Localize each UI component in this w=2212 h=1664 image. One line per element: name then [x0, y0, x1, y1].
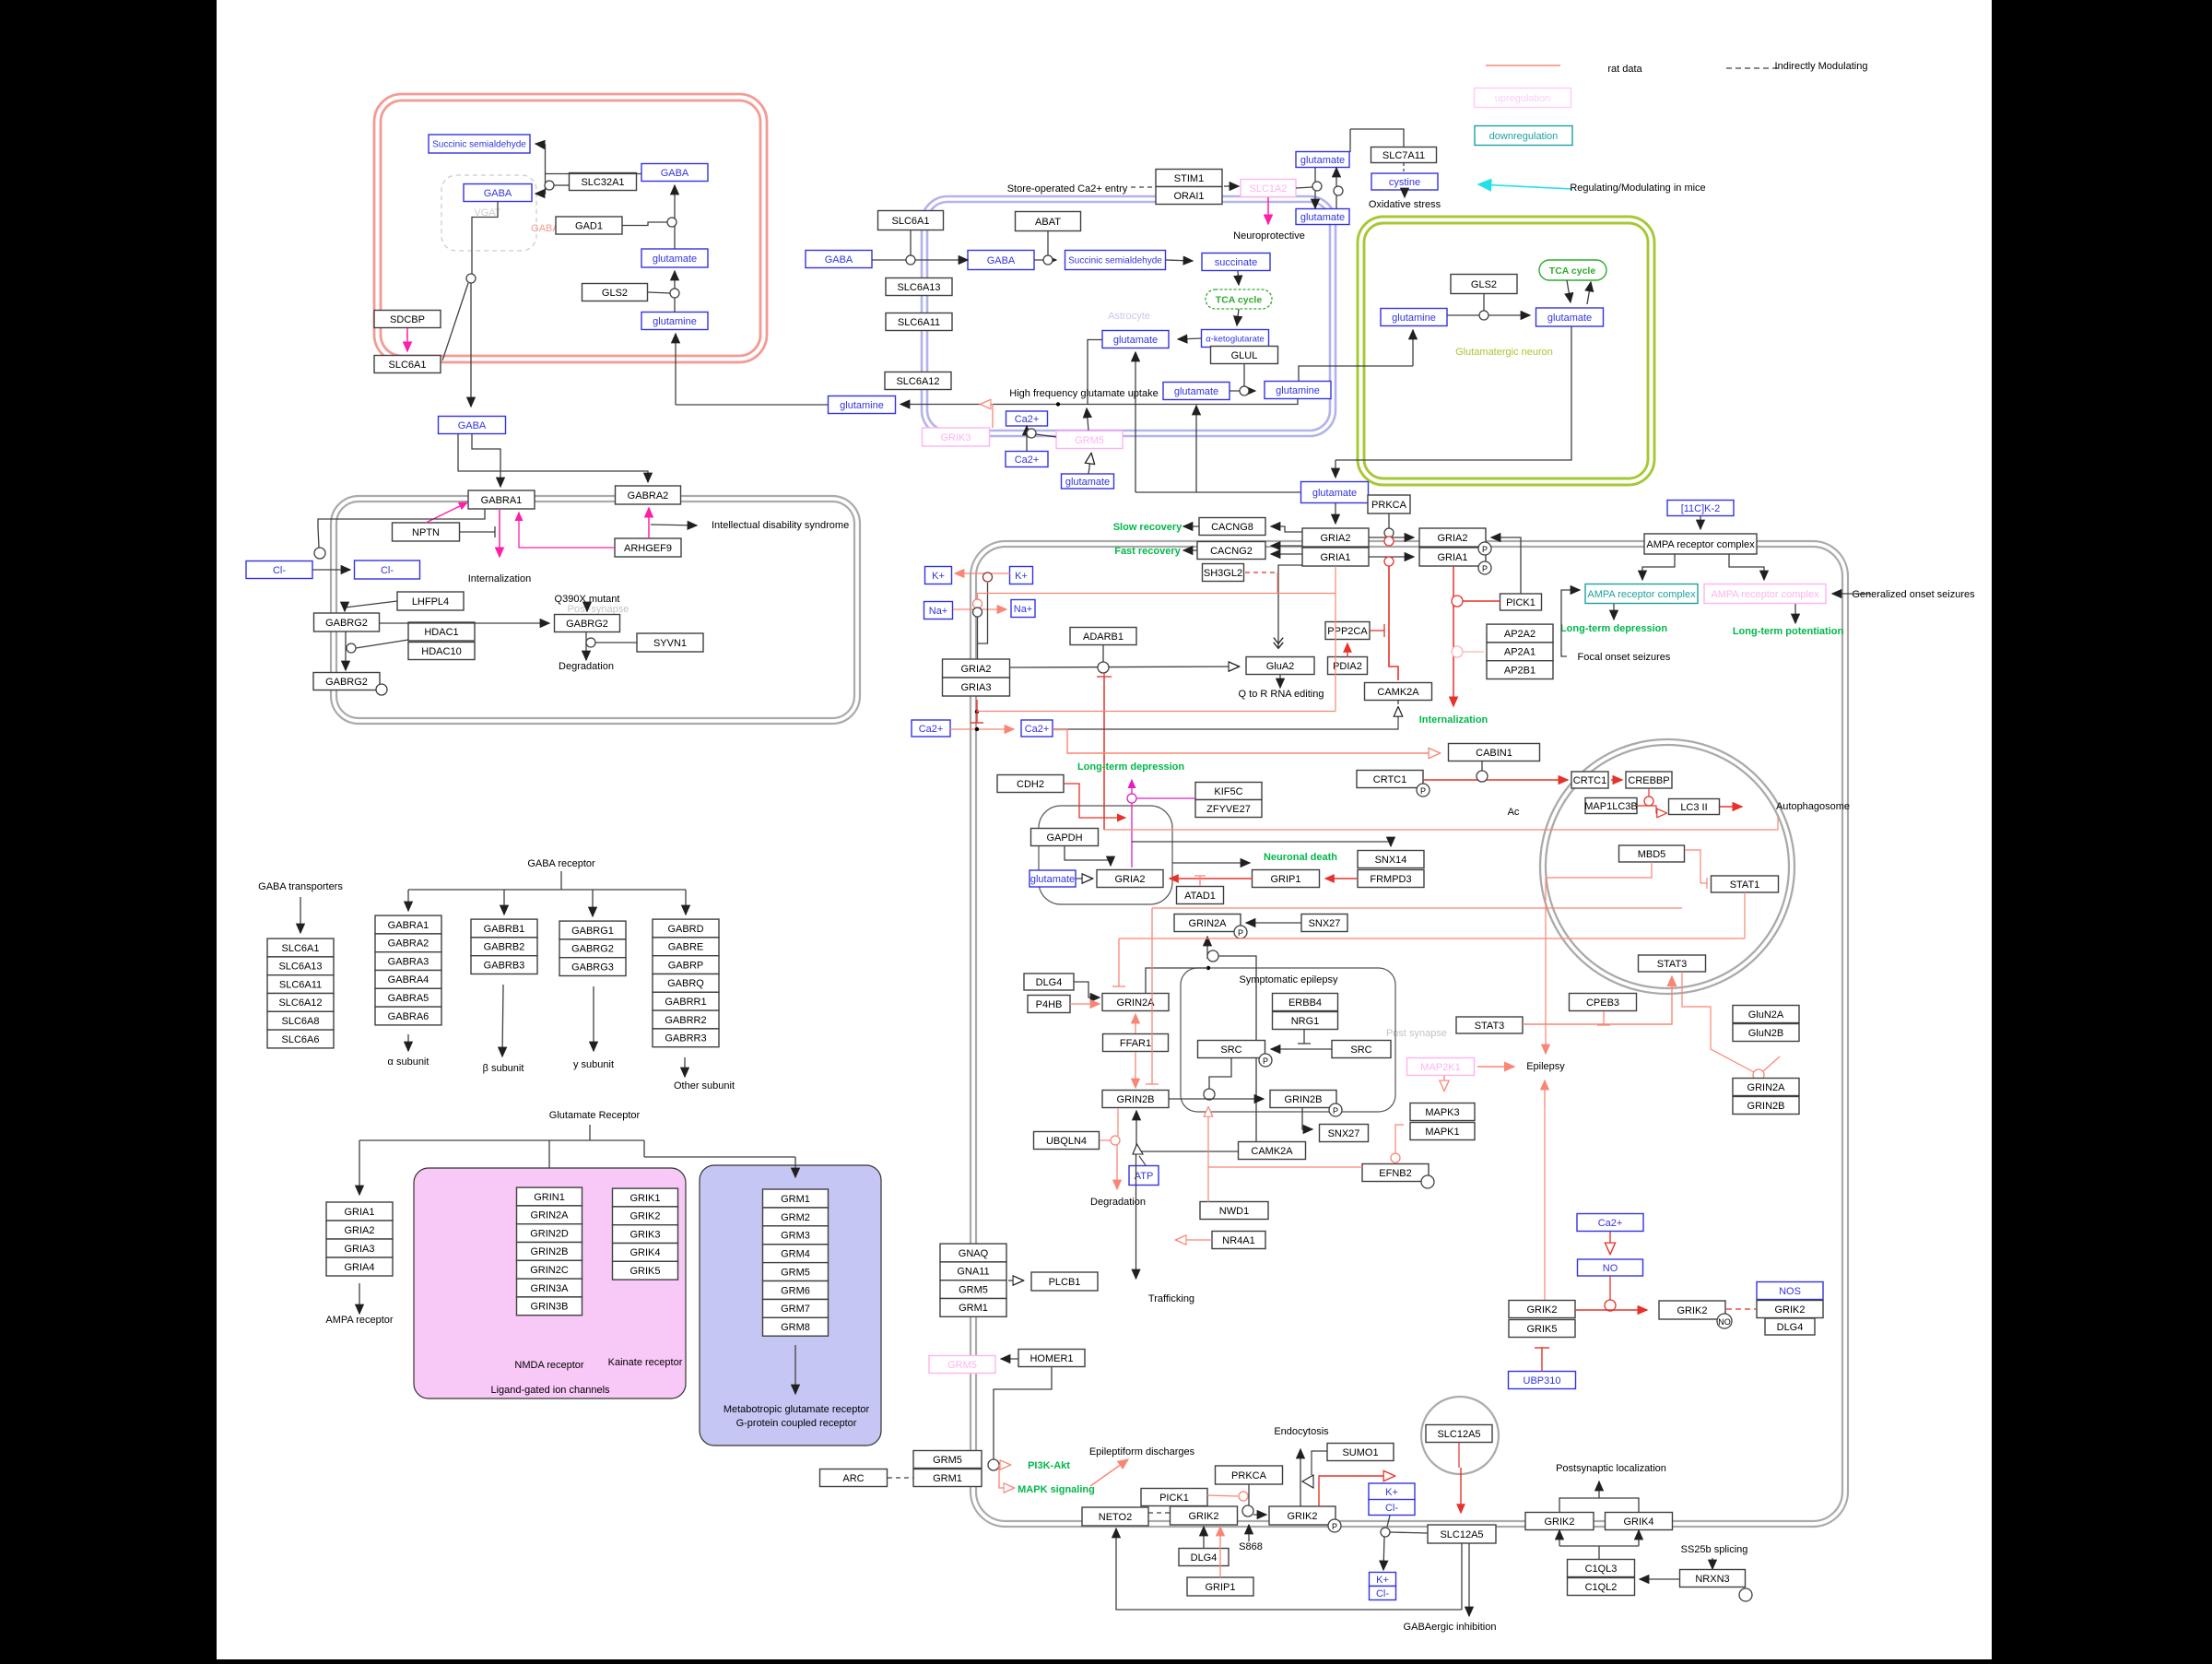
svg-text:G-protein coupled receptor: G-protein coupled receptor: [736, 1418, 857, 1429]
svg-text:Kainate receptor: Kainate receptor: [608, 1357, 683, 1368]
node SUMO1: [1327, 1444, 1394, 1461]
wire NPTN circle link: [318, 527, 319, 548]
svg-text:CRTC1: CRTC1: [1373, 774, 1406, 785]
wire Cl- transport: [312, 569, 350, 571]
wire red long top: [1104, 829, 1778, 831]
node HOMER1: [1018, 1350, 1085, 1367]
wire ARHGEF9 to GABRA2 (magenta): [648, 508, 650, 538]
svg-text:GRIN2A: GRIN2A: [1117, 997, 1156, 1009]
wire GABA to GABRA1: [472, 434, 500, 487]
svg-text:Neuroprotective: Neuroprotective: [1233, 230, 1305, 242]
svg-text:GABA receptor: GABA receptor: [527, 858, 595, 869]
svg-text:Glutamatergic neuron: Glutamatergic neuron: [1455, 347, 1553, 358]
wire vesicle to SLC6A1: [442, 283, 468, 360]
inhibition STAT1 salmon: [1700, 878, 1707, 889]
svg-text:NRG1: NRG1: [1291, 1016, 1320, 1027]
node CPEB3: [1570, 994, 1637, 1011]
wire FFAR1 to GRIN2B salmon: [1135, 1052, 1136, 1088]
svg-text:LC3 II: LC3 II: [1680, 802, 1707, 813]
svg-text:AMPA receptor: AMPA receptor: [325, 1315, 393, 1326]
node GABRR1 (other list): [653, 992, 719, 1010]
svg-text:C1QL3: C1QL3: [1585, 1564, 1618, 1575]
metabolite GABA (neuron): [641, 164, 708, 182]
node CREBBP: [1626, 772, 1672, 788]
wire SRC to SRC: [1271, 1048, 1332, 1050]
svg-text:GRM1: GRM1: [933, 1473, 962, 1484]
svg-text:GRIN2A: GRIN2A: [1747, 1082, 1786, 1093]
node GABRB1 (beta list): [471, 919, 537, 938]
svg-text:SLC32A1: SLC32A1: [581, 177, 624, 188]
svg-text:α-ketoglutarate: α-ketoglutarate: [1206, 334, 1265, 344]
wire salmon epilepsy vert: [1545, 878, 1547, 1042]
svg-text:GRM6: GRM6: [781, 1285, 810, 1296]
svg-text:Cl-: Cl-: [273, 565, 286, 576]
node SLC12A5 (membrane): [1428, 1525, 1496, 1543]
node SLC6A11: [886, 313, 952, 331]
legend dashed line: [1726, 67, 1780, 69]
node NRG1: [1273, 1012, 1338, 1030]
node GRM1 (mGluR list): [763, 1189, 829, 1208]
wire GABA to GABRA2: [458, 434, 648, 482]
svg-text:Ca2+: Ca2+: [1025, 724, 1050, 735]
wire STAT3 route down: [1682, 972, 1754, 1072]
node circle Na channel: [973, 608, 982, 617]
svg-text:GRIN2B: GRIN2B: [1285, 1094, 1323, 1105]
svg-text:GRIA1: GRIA1: [344, 1207, 374, 1218]
metabolite glutamine (astrocyte): [1265, 382, 1331, 399]
svg-text:downregulation: downregulation: [1489, 131, 1559, 142]
svg-text:PDIA2: PDIA2: [1333, 661, 1362, 672]
inhibition CPEB3: [1597, 1011, 1610, 1025]
node circle SLC7A11 transport: [1334, 186, 1343, 195]
svg-text:ORAI1: ORAI1: [1173, 191, 1204, 202]
wire CAMK2A up open: [1397, 701, 1399, 704]
wire alpha arrow: [407, 1034, 409, 1051]
node GRM5 (Gq stack): [940, 1280, 1006, 1299]
metabolite K+ (upper pair): [1369, 1483, 1415, 1500]
svg-text:NR4A1: NR4A1: [1222, 1235, 1254, 1246]
svg-text:MAPK signaling: MAPK signaling: [1018, 1484, 1095, 1495]
wire glutamate to GRIA stack: [1335, 503, 1336, 524]
compartment vesicle SLC12A5 (gray circle): [1421, 1397, 1499, 1474]
node GRIN1 (NMDA list): [517, 1187, 582, 1206]
svg-text:MAPK3: MAPK3: [1425, 1107, 1459, 1118]
wire GABRA1 bottom left: [318, 509, 485, 527]
wire GABRA1 internalization (magenta): [499, 509, 500, 557]
node GABRA2 (alpha list): [375, 934, 441, 952]
node circle KCC2: [1381, 1528, 1390, 1537]
node GNAQ (Gq stack): [940, 1244, 1006, 1262]
wire ADARB1 to circle: [1102, 645, 1104, 662]
svg-text:Trafficking: Trafficking: [1148, 1293, 1194, 1304]
metabolite glutamate (astrocyte mid): [1102, 331, 1169, 348]
node GluN2A: [1733, 1006, 1799, 1023]
wire magenta LTD arrow: [1131, 780, 1133, 802]
svg-text:HOMER1: HOMER1: [1030, 1353, 1073, 1364]
node GRM5 (mGluR list): [763, 1263, 829, 1281]
metabolite K+ (lower pair): [1370, 1573, 1396, 1587]
wire KIF5C to circle magenta: [1136, 797, 1195, 799]
svg-text:GABA: GABA: [987, 255, 1016, 266]
svg-text:glutamate: glutamate: [1113, 335, 1158, 346]
svg-text:P: P: [1482, 564, 1488, 573]
node circle GRM5 Ca: [1027, 429, 1036, 438]
wire LC3II to autophagosome red: [1720, 806, 1742, 808]
wire KCl down: [1387, 1516, 1390, 1527]
wire GABA release down: [470, 283, 472, 407]
compartment nucleus (gray circle): [1540, 739, 1794, 994]
node GRIN2A (NMDA list): [517, 1206, 582, 1224]
svg-text:GABRG1: GABRG1: [571, 926, 614, 937]
node GLUL: [1211, 347, 1278, 364]
svg-text:Postsynaptic localization: Postsynaptic localization: [1556, 1463, 1666, 1474]
svg-text:PI3K-Akt: PI3K-Akt: [1028, 1460, 1070, 1471]
wire pink to LTP: [1794, 604, 1796, 623]
svg-text:[11C]K-2: [11C]K-2: [1681, 503, 1721, 514]
node SLC32A1: [570, 173, 637, 191]
legend rat data line: [1486, 65, 1560, 66]
node PICK1 (bottom): [1141, 1489, 1207, 1506]
svg-text:GRIK2: GRIK2: [629, 1211, 660, 1222]
wire SLC1A2 neuroprotective (magenta): [1267, 197, 1269, 224]
wire to PI3K open salmon: [999, 1464, 1010, 1466]
node GABRR3 (other list): [653, 1029, 719, 1047]
wire GRM5 to circle: [1036, 434, 1056, 437]
svg-text:GRIK2: GRIK2: [1544, 1516, 1574, 1528]
svg-text:GRM5: GRM5: [1075, 435, 1104, 446]
node SLC6A13: [886, 278, 952, 296]
node AP2A2: [1487, 624, 1553, 643]
metabolite ATP: [1129, 1166, 1159, 1186]
metabolite Ca2+ (astro upper): [1006, 411, 1048, 426]
metabolite Cl- (upper pair): [1369, 1500, 1415, 1516]
node circle GRIN2A: [1207, 950, 1218, 962]
node P SRC: [1259, 1054, 1272, 1067]
wire ARC dashed GRM1: [888, 1477, 913, 1479]
node GRIA2 (membrane stack): [1302, 528, 1369, 547]
svg-text:P4HB: P4HB: [1036, 999, 1063, 1010]
svg-text:GRM2: GRM2: [781, 1212, 810, 1223]
svg-text:succinate: succinate: [1215, 257, 1257, 268]
svg-text:CAMK2A: CAMK2A: [1377, 687, 1419, 698]
svg-text:GLS2: GLS2: [1471, 279, 1497, 290]
node circle CREBBP red: [1644, 797, 1653, 806]
wire red long LTD line: [977, 711, 1335, 713]
wire AMPA to teal: [1642, 554, 1675, 580]
wire SLC6A1 to circle astro: [910, 230, 912, 255]
node AMPA receptor complex (up): [1704, 584, 1826, 604]
wire tree to GABRB stack: [503, 890, 505, 915]
wire NRXN3 to C1QL: [1640, 1578, 1679, 1580]
wire K2 to AMPA: [1700, 516, 1701, 529]
metabolite GABA (extracellular left): [806, 251, 872, 268]
wire GABA transporters arrow: [300, 897, 301, 933]
node GRM8 (mGluR list): [763, 1317, 829, 1336]
node GABRG2 (gamma list): [559, 939, 626, 958]
node GNA11 (Gq stack): [940, 1262, 1006, 1280]
svg-text:SLC6A1: SLC6A1: [389, 360, 427, 371]
node CRTC1 (nucleus): [1571, 772, 1608, 788]
metabolite Cl- (outside): [246, 561, 312, 579]
metabolite Na+ (out): [924, 602, 953, 620]
wire GRIK2 red out: [1319, 1476, 1394, 1506]
node GRM5 (astrocyte pink): [1056, 431, 1123, 449]
svg-text:Ca2+: Ca2+: [1015, 414, 1040, 425]
wire GABA to SuccSemi astro: [1034, 259, 1056, 261]
wire glutamate-SLC7A11 top: [1350, 129, 1404, 147]
svg-text:Q390X mutant: Q390X mutant: [555, 594, 620, 605]
node P CRTC1: [1417, 784, 1430, 797]
node GRM5 (bottom): [913, 1451, 982, 1469]
wire GRM8 down arrow: [794, 1345, 796, 1394]
compartment Post synapse right (gray): [971, 541, 1848, 1527]
metabolite Succinic semialdehyde: [429, 135, 530, 153]
wire GABRG2 Q390X degradation: [585, 632, 587, 660]
node GRIA4 (AMPA list): [326, 1257, 393, 1276]
wire ABAT to circle: [1047, 231, 1049, 255]
metabolite NO: [1578, 1259, 1643, 1276]
svg-text:Endocytosis: Endocytosis: [1274, 1426, 1329, 1437]
svg-text:K+: K+: [1385, 1487, 1398, 1498]
node GRM7 (mGluR list): [763, 1300, 829, 1318]
wire CRTC1 to CRTC1 red: [1423, 779, 1568, 781]
wire generalized dash: [1856, 593, 1871, 595]
node HDAC1: [408, 622, 475, 641]
wire glutamine neuron horizontal: [1299, 366, 1413, 382]
wire salmon GRIA1 internal vert: [1335, 566, 1336, 712]
svg-text:SUMO1: SUMO1: [1342, 1447, 1378, 1458]
compartment Post-synapse left (gray): [331, 496, 860, 724]
node P GRIK2: [1328, 1519, 1341, 1532]
node PICK1 (top): [1500, 594, 1542, 610]
junction Ca dot: [975, 727, 979, 731]
wire salmon epilepsy arrow: [1545, 1042, 1547, 1054]
node GABRA3 (alpha list): [375, 952, 441, 971]
metabolite glutamate (neuron): [641, 249, 708, 267]
metabolite K+ (in): [1010, 567, 1033, 584]
node P4HB: [1028, 996, 1070, 1013]
node HDAC10: [408, 643, 475, 660]
node EFNB2: [1362, 1164, 1429, 1182]
svg-text:GluA2: GluA2: [1266, 661, 1295, 672]
node GABRA1 (alpha list): [375, 915, 441, 934]
wire release into cleft glutamate: [1335, 460, 1336, 478]
node GRIA2 (channel stack): [943, 659, 1010, 678]
node circle GluN salmon: [1753, 1069, 1764, 1080]
wire GRIK bracket up: [1559, 1498, 1639, 1513]
node STAT3 (cyto): [1456, 1017, 1523, 1033]
svg-text:GRIN2C: GRIN2C: [530, 1265, 569, 1276]
wire GRIN2A up arrow: [1206, 937, 1208, 959]
wire glutamine to glutamate: [674, 271, 676, 313]
node SRC (right): [1332, 1041, 1391, 1058]
metabolite glutamate (astrocyte top): [1296, 209, 1349, 225]
svg-text:Ca2+: Ca2+: [1598, 1218, 1623, 1229]
wire TCA to aKG: [1237, 309, 1239, 325]
junction dot GRIN2A: [1206, 966, 1210, 970]
svg-text:Autophagosome: Autophagosome: [1776, 801, 1850, 812]
wire red GRIA internalization: [1389, 566, 1398, 680]
wire PICK1 up to GRIA2: [1491, 537, 1521, 594]
legend cyan arrow: [1478, 184, 1572, 189]
svg-text:SNX27: SNX27: [1328, 1128, 1360, 1139]
wire K channel down: [978, 583, 988, 643]
svg-text:GRM7: GRM7: [781, 1304, 810, 1315]
node NR4A1: [1212, 1232, 1265, 1249]
wire CDH2 red: [1064, 784, 1125, 818]
svg-text:STAT3: STAT3: [1475, 1021, 1505, 1032]
node CAMK2A (lower): [1239, 1142, 1306, 1160]
svg-text:AP2A2: AP2A2: [1504, 629, 1535, 640]
svg-text:GABA: GABA: [661, 168, 689, 179]
svg-text:K+: K+: [1015, 571, 1028, 582]
svg-text:Ac: Ac: [1508, 807, 1520, 818]
svg-text:FRMPD3: FRMPD3: [1370, 874, 1411, 885]
node NETO2: [1082, 1507, 1148, 1526]
wire glutamate exchange down: [1314, 168, 1316, 208]
svg-text:NMDA receptor: NMDA receptor: [514, 1360, 584, 1371]
node GRIK2 (bottom pair): [1525, 1513, 1594, 1530]
node GAPDH: [1031, 829, 1099, 846]
wire GAD1 to circle: [622, 222, 667, 226]
node P GRIA1: [1478, 561, 1491, 574]
node C1QL3: [1568, 1560, 1635, 1577]
node UBQLN4: [1034, 1132, 1100, 1150]
node circle GLS2 neuron: [1479, 311, 1488, 320]
wire GRIN2B degradation upper: [1117, 1108, 1119, 1136]
node circle GRIA2 red: [1384, 537, 1394, 546]
wire Ca2+ up: [1026, 426, 1028, 452]
wire GRIA to CACNG2b: [1271, 553, 1302, 555]
svg-text:glutamate: glutamate: [1312, 488, 1357, 499]
svg-text:glutamine: glutamine: [1392, 313, 1436, 324]
wire P4HB to GRIN2A salmon: [1070, 1003, 1100, 1005]
metabolite glutamine (neuron): [641, 313, 708, 330]
wire STAT3 to STAT3 salmon: [1523, 976, 1672, 1024]
svg-text:SYVN1: SYVN1: [653, 638, 687, 649]
svg-text:SNX14: SNX14: [1375, 855, 1407, 866]
junction Ca dot2: [975, 710, 979, 714]
metabolite Ca2+ (NO): [1577, 1214, 1643, 1232]
svg-text:SLC6A6: SLC6A6: [282, 1034, 320, 1045]
wire aKG to glutamate: [1178, 338, 1202, 339]
wire glutamate receptor tree: [589, 1125, 591, 1140]
svg-text:GRIN2B: GRIN2B: [531, 1246, 569, 1257]
metabolite Ca2+ (out): [912, 720, 950, 737]
wire SuccSemi to succinate: [1166, 260, 1193, 261]
node AP2B1: [1487, 661, 1553, 679]
metabolite glutamine (astrocyte export): [829, 396, 896, 414]
svg-text:SLC6A11: SLC6A11: [898, 317, 940, 328]
svg-text:Long-term depression: Long-term depression: [1560, 623, 1667, 634]
node GRIA2 (GAPDH complex): [1097, 870, 1163, 888]
wire CREBBP down red: [1648, 788, 1650, 797]
wire GABRG2 to GABRG2 Q390X: [379, 622, 549, 624]
node GABRQ (other list): [653, 974, 719, 993]
node GRM2 (mGluR list): [763, 1208, 829, 1226]
node PRKCA (top): [1368, 495, 1410, 513]
svg-text:AP2B1: AP2B1: [1504, 666, 1535, 677]
node circle PRKCA: [1384, 528, 1394, 537]
metabolite Ca2+ (astro lower): [1006, 452, 1048, 467]
node STAT1: [1712, 876, 1779, 892]
svg-text:GABRB1: GABRB1: [484, 924, 525, 935]
node GAD1: [556, 217, 622, 234]
svg-text:GABRA1: GABRA1: [388, 920, 429, 931]
node LC3 II: [1669, 799, 1720, 815]
svg-text:AMPA receptor complex: AMPA receptor complex: [1587, 589, 1696, 600]
node NWD1: [1200, 1202, 1268, 1220]
metabolite UBP310: [1509, 1372, 1576, 1389]
node SLC1A2: [1241, 180, 1296, 197]
wire DLG4 to GRIK2: [1203, 1527, 1205, 1548]
svg-text:Internalization: Internalization: [468, 573, 532, 584]
svg-text:GRIN3B: GRIN3B: [531, 1302, 569, 1313]
svg-text:SRC: SRC: [1350, 1044, 1371, 1056]
node circle ADARB1: [1098, 662, 1109, 673]
svg-text:GRIA3: GRIA3: [960, 682, 991, 693]
node C1QL2: [1568, 1578, 1635, 1596]
svg-text:α subunit: α subunit: [388, 1056, 429, 1068]
wire MBD5 to STAT1 salmon: [1685, 850, 1700, 883]
node MAPK3: [1410, 1103, 1475, 1121]
node circle AP2 red: [1452, 646, 1463, 657]
node GABRD (other list): [653, 919, 719, 938]
wire AP2 to circle: [1463, 651, 1484, 653]
node SLC6A12 (transporter list): [267, 994, 334, 1012]
svg-text:GRM8: GRM8: [781, 1322, 810, 1333]
svg-text:GABA transporters: GABA transporters: [258, 881, 343, 892]
svg-text:AMPA receptor complex: AMPA receptor complex: [1646, 539, 1755, 550]
node GRIN2D (NMDA list): [517, 1224, 582, 1243]
node P GRIN2A: [1234, 926, 1247, 938]
svg-text:P: P: [1333, 1106, 1338, 1115]
node GABRG1 (gamma list): [559, 921, 626, 939]
node DLG4 (bottom): [1179, 1549, 1229, 1566]
node circle GRIK2 link: [1242, 1505, 1253, 1516]
node PLCB1: [1031, 1272, 1098, 1291]
svg-text:ABAT: ABAT: [1035, 217, 1061, 228]
wire cystine to oxidative stress: [1404, 190, 1406, 197]
svg-text:S868: S868: [1239, 1541, 1263, 1552]
node SH3GL2: [1203, 564, 1244, 582]
wire GRIN2A junction left: [1146, 968, 1208, 994]
node SLC6A1 (transporter list): [267, 938, 334, 957]
svg-text:GRIN2A: GRIN2A: [1189, 918, 1228, 929]
svg-text:TCA cycle: TCA cycle: [1216, 295, 1263, 306]
junction dot high frequency: [1056, 402, 1060, 406]
svg-text:glutamate: glutamate: [653, 254, 697, 265]
node DLG4 (NOS stack): [1765, 1318, 1815, 1335]
node SLC6A13 (transporter list): [267, 957, 334, 975]
node SNX14: [1358, 851, 1424, 868]
wire PDIA2 to PPP2CA red: [1347, 643, 1348, 657]
wire HDAC to circle: [356, 640, 408, 648]
node GRM4 (mGluR list): [763, 1245, 829, 1263]
svg-text:NWD1: NWD1: [1219, 1206, 1249, 1217]
node circle HDAC: [347, 643, 356, 653]
wire GRIK2 endocytosis: [1300, 1449, 1301, 1506]
svg-text:SLC6A12: SLC6A12: [896, 376, 939, 387]
node circle HOMER1: [988, 1459, 999, 1470]
svg-text:ATAD1: ATAD1: [1184, 891, 1216, 902]
node GRIA1 (AMPA list): [326, 1202, 393, 1221]
svg-text:STIM1: STIM1: [1174, 173, 1204, 184]
svg-text:GNA11: GNA11: [957, 1267, 989, 1278]
wire CACNG8 slow: [1183, 525, 1199, 527]
node DLG4 (GRIN2A): [1024, 974, 1074, 990]
svg-text:NO: NO: [1718, 1317, 1731, 1327]
